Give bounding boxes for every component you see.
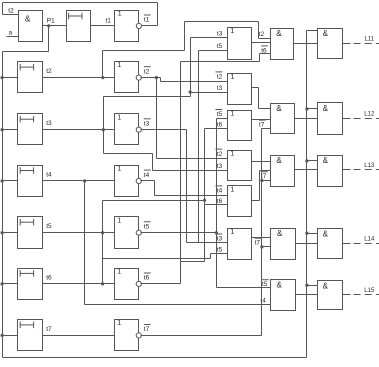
label t5-bar at gate G5 input xyxy=(262,280,269,289)
label t2-bar at box C2 input 1 xyxy=(216,149,223,158)
enable stub into gate F4 xyxy=(307,233,318,235)
label t7-bar at gate G4 input xyxy=(255,238,262,247)
wire from rail into timer T5 xyxy=(3,232,18,234)
junction on rail at timer T7 xyxy=(0,334,3,337)
inversion bubble of U3 xyxy=(136,127,141,132)
svg-text:t4: t4 xyxy=(46,171,52,178)
svg-text:t2: t2 xyxy=(259,31,265,38)
junction t6 riser/channel xyxy=(203,199,206,202)
timer T5 (pulse element), output t5 xyxy=(18,217,43,249)
svg-text:1: 1 xyxy=(118,11,122,18)
inversion bubble of U6 xyxy=(136,281,141,286)
dashed output line L13 xyxy=(351,169,379,171)
AND gate F3, output L13 xyxy=(318,156,343,187)
junction on t2-bar wire xyxy=(155,76,158,79)
svg-text:L13: L13 xyxy=(364,163,375,169)
label t6-bar at gate G1 input xyxy=(261,46,268,54)
label a at AND gate input xyxy=(9,30,13,37)
junction on rail at timer T6 xyxy=(0,282,3,285)
svg-text:t5: t5 xyxy=(144,224,150,231)
pulse symbol of timer T4 xyxy=(20,167,33,173)
wire t6-bar into gate G1 xyxy=(260,53,271,55)
label t3-bar at inverter U3 output xyxy=(144,119,151,128)
wire t3 run xyxy=(104,96,191,98)
junction on enable rail at gate F3 xyxy=(305,159,308,162)
wire from rail into timer T2 xyxy=(3,77,18,79)
label 1 of inverter U1 xyxy=(118,11,122,18)
junction on t3 wire xyxy=(102,128,105,131)
pulse symbol of timer T7 xyxy=(20,322,33,328)
wire output of gate G1 to F1 xyxy=(294,43,318,45)
output wire of gate F5 xyxy=(343,294,351,296)
dashed output line L12 xyxy=(351,118,379,120)
wire t7-bar into gate G2 xyxy=(262,128,271,130)
wire box D output into gate G3 xyxy=(260,170,271,172)
wire t3-bar into box E xyxy=(187,242,228,244)
svg-text:t6: t6 xyxy=(217,121,223,128)
wire t2 into gate G1 xyxy=(259,38,271,40)
wire t6 run xyxy=(103,200,205,202)
wire into AND gate input t2 xyxy=(3,14,19,16)
inverter U5, output t5-bar xyxy=(115,217,139,249)
svg-text:1: 1 xyxy=(117,166,121,173)
wire t7-bar column xyxy=(261,129,263,336)
label t6 at timer T6 output xyxy=(46,274,52,281)
junction on enable rail at gate F4 xyxy=(305,232,308,235)
label t5 at timer T5 output xyxy=(46,223,52,230)
inverter U4, output t4-bar xyxy=(115,166,139,197)
label t1 xyxy=(106,17,112,24)
svg-text:t7: t7 xyxy=(46,326,52,333)
wire output of gate G2 to F2 xyxy=(295,118,318,120)
svg-text:P1: P1 xyxy=(47,17,55,24)
label L15 xyxy=(364,288,375,294)
svg-text:t3: t3 xyxy=(217,30,223,37)
wire t5-bar from bubble U5 xyxy=(141,232,217,234)
junction on rail at timer T2 xyxy=(0,76,3,79)
label t5 at box A input 2 xyxy=(217,43,223,50)
label t2 at AND gate input xyxy=(8,7,14,14)
wire t2 drop to gate G1 xyxy=(258,22,260,39)
label t6 at box C input 2 xyxy=(217,121,223,128)
wire from rail into timer T3 xyxy=(3,129,18,131)
label t3 at box A input 1 xyxy=(217,30,223,37)
label t6 at box D input 2 xyxy=(217,198,223,205)
svg-text:&: & xyxy=(276,29,282,38)
wire t3 into box C2 xyxy=(153,170,228,172)
junction t5-bar at column xyxy=(215,231,218,234)
label & of AND gate F3 xyxy=(323,156,329,165)
dashed output line L14 xyxy=(351,243,379,245)
pulse symbol of timer T1 xyxy=(69,13,82,19)
wire t2-bar column down xyxy=(156,78,158,159)
svg-text:1: 1 xyxy=(117,114,121,121)
svg-text:t4: t4 xyxy=(144,172,150,179)
wire t4 descender xyxy=(84,181,86,305)
svg-text:&: & xyxy=(277,281,283,290)
inverter U6, output t6-bar xyxy=(115,269,139,300)
label 1 of box C2 xyxy=(230,151,234,158)
wire box B output drop xyxy=(258,88,260,109)
wire output of gate G5 to F5 xyxy=(296,294,318,296)
logic box E (1) xyxy=(228,229,252,260)
label L11 xyxy=(365,37,375,43)
inverter U1, output t1-bar xyxy=(115,11,139,42)
wire t1-bar top feedback run xyxy=(3,2,158,4)
label 1 of box C xyxy=(230,111,234,118)
svg-text:t2: t2 xyxy=(144,68,150,75)
wire t7-bar into gate G3 xyxy=(262,180,271,182)
timer T4 (pulse element), output t4 xyxy=(18,166,43,197)
output wire of gate F1 xyxy=(343,43,351,45)
svg-text:t5: t5 xyxy=(217,247,223,254)
svg-text:1: 1 xyxy=(117,269,121,276)
inversion bubble of U2 xyxy=(136,75,141,80)
svg-text:t7: t7 xyxy=(144,326,150,333)
wire t5 descender xyxy=(102,233,104,259)
logic box D (1) xyxy=(228,186,252,217)
svg-text:1: 1 xyxy=(230,111,234,118)
label t7-bar at gate G3 input xyxy=(261,172,268,181)
wire t1-bar left drop xyxy=(2,3,4,15)
AND gate G3 xyxy=(271,156,295,187)
pulse symbol of timer T2 xyxy=(20,64,33,70)
label t2-bar at box B input 1 xyxy=(216,72,223,81)
dashed output line L15 xyxy=(351,294,379,296)
inverter U2, output t2-bar xyxy=(115,62,139,93)
label 1 of inverter U2 xyxy=(117,62,121,69)
svg-text:t3: t3 xyxy=(217,85,223,92)
label 1 of inverter U7 xyxy=(117,320,121,327)
dashed output line L11 xyxy=(351,43,379,45)
wire t5-bar into gate G5 xyxy=(217,287,271,289)
wire t2 riser 2 xyxy=(184,22,186,51)
svg-text:1: 1 xyxy=(117,320,121,327)
wire from rail into timer T7 xyxy=(3,335,18,337)
timer T2 (pulse element), output t2 xyxy=(18,62,43,93)
label P1 xyxy=(47,17,55,24)
output wire of gate F4 xyxy=(343,243,351,245)
wire output of gate G3 to F3 xyxy=(295,169,318,171)
svg-text:t5: t5 xyxy=(217,111,223,118)
label & of AND gate G4 xyxy=(277,229,283,238)
label & of AND gate F1 xyxy=(323,29,329,38)
svg-text:t3: t3 xyxy=(217,163,223,170)
AND gate F2, output L12 xyxy=(318,103,343,135)
wire t6-bar branch run xyxy=(181,261,205,263)
junction on rail at timer T5 xyxy=(0,231,3,234)
wire t3 riser xyxy=(103,97,105,130)
wire output of box E into gate G4 xyxy=(252,237,271,239)
junction on t6 wire xyxy=(101,282,104,285)
pulse symbol of timer T6 xyxy=(20,270,33,276)
AND gate F1, output L11 xyxy=(318,29,343,59)
label L12 xyxy=(364,112,375,118)
bottom enable rail P1 xyxy=(3,357,307,359)
svg-text:t2: t2 xyxy=(46,68,52,75)
svg-text:t2: t2 xyxy=(217,151,223,158)
wire output of box B xyxy=(252,87,259,89)
junction on enable rail at gate F2 xyxy=(305,107,308,110)
wire t3 distribution riser xyxy=(190,38,192,97)
wire t5-bar column xyxy=(216,119,218,288)
wire t3 from timer T3 to inverter U3 xyxy=(43,129,115,131)
wire input a of AND gate xyxy=(7,36,19,38)
wire from rail into timer T4 xyxy=(3,180,18,182)
inversion bubble of U4 xyxy=(136,178,141,183)
label t5-bar at box C input 1 xyxy=(216,110,223,119)
label t2-bar at inverter U2 output xyxy=(144,67,151,76)
label 1 of inverter U3 xyxy=(117,114,121,121)
wire t5 into box A xyxy=(199,50,228,52)
left enable rail P1 xyxy=(2,52,4,358)
wire t4 run into gate G5 xyxy=(85,304,271,306)
svg-text:t7: t7 xyxy=(259,122,265,129)
wire t4-bar from bubble U4 xyxy=(141,180,155,182)
label & of AND gate G5 xyxy=(277,281,283,290)
label t3 at timer T3 output xyxy=(46,120,52,127)
wire t6 from timer T6 to inverter U6 xyxy=(43,283,115,285)
wire t5 riser to box A xyxy=(198,51,200,243)
svg-text:L14: L14 xyxy=(364,237,375,243)
output wire of gate F2 xyxy=(343,118,351,120)
junction t7-bar tap at gate G3 xyxy=(260,179,263,182)
label t3-bar at box E input 1 xyxy=(216,234,223,243)
wire t6 distribution riser xyxy=(204,129,206,262)
wire output of box D xyxy=(252,200,260,202)
svg-text:t6: t6 xyxy=(144,275,150,282)
svg-text:t2: t2 xyxy=(217,74,223,81)
label 1 of inverter U5 xyxy=(117,217,121,224)
svg-text:&: & xyxy=(323,104,329,113)
svg-text:1: 1 xyxy=(230,151,234,158)
wire t3 lower branch run xyxy=(104,153,153,155)
AND gate G2 xyxy=(271,104,295,134)
svg-text:t1: t1 xyxy=(144,17,150,24)
label t7-bar at gate G2 input xyxy=(259,120,266,129)
logic box A (1) xyxy=(228,28,252,60)
label L14 xyxy=(364,237,375,243)
svg-text:&: & xyxy=(276,104,282,113)
wire box B output into gate G2 xyxy=(259,108,271,110)
label & of AND gate F5 xyxy=(323,281,329,290)
wire from rail into timer T6 xyxy=(3,283,18,285)
wire t3-bar from bubble U3 xyxy=(141,129,187,131)
inverter U3, output t3-bar xyxy=(115,114,139,145)
svg-text:t5: t5 xyxy=(46,223,52,230)
svg-text:L12: L12 xyxy=(364,112,375,118)
junction t7-bar tap at gate G4 xyxy=(260,245,263,248)
label t4-bar at inverter U4 output xyxy=(144,170,151,179)
label & of AND gate xyxy=(25,14,31,23)
wire t2-bar from bubble U2 xyxy=(141,77,161,79)
junction on rail at timer T3 xyxy=(0,128,3,131)
wire t5 run xyxy=(103,258,211,260)
output wire of gate F3 xyxy=(343,169,351,171)
AND gate F5, output L15 xyxy=(318,281,343,310)
wire t1-bar from bubble U1 xyxy=(142,25,158,27)
svg-text:L15: L15 xyxy=(364,288,375,294)
junction t3 tap to box B xyxy=(189,90,192,93)
logic box C (1) xyxy=(228,111,252,141)
AND gate F4, output L14 xyxy=(318,229,343,259)
wire t7-bar from bubble U7 xyxy=(141,335,262,337)
wire t6 into box D xyxy=(205,204,228,206)
label 1 of box D xyxy=(230,186,234,193)
wire t6 riser xyxy=(102,201,104,284)
wire t3 into box A xyxy=(191,37,228,39)
wire t4 from timer T4 to inverter U4 xyxy=(43,180,115,182)
wire t3-bar descender xyxy=(186,130,188,243)
junction node P1 xyxy=(47,24,50,27)
wire t6-bar from bubble U6 xyxy=(141,283,181,285)
wire t7-bar into gate G4 xyxy=(262,246,271,248)
timer T7 (pulse element), output t7 xyxy=(18,320,43,351)
svg-text:t6: t6 xyxy=(46,274,52,281)
svg-text:t7: t7 xyxy=(255,240,261,247)
label t3 at box B input 2 xyxy=(217,85,223,92)
timer T1 (pulse element), output t1 xyxy=(67,11,91,42)
right enable riser P1 to final gates xyxy=(306,31,308,358)
enable stub into gate F1 xyxy=(307,30,318,32)
junction on t4 wire xyxy=(83,179,86,182)
svg-text:1: 1 xyxy=(230,28,234,35)
label t5-bar at inverter U5 output xyxy=(144,222,151,231)
label & of AND gate F4 xyxy=(323,229,329,238)
wire t2 run xyxy=(103,50,185,52)
enable stub into gate F3 xyxy=(307,160,318,162)
wire P1 from AND gate to timer T1 xyxy=(43,25,67,27)
AND gate G5 xyxy=(271,280,296,311)
inversion bubble of U7 xyxy=(136,333,141,338)
wire t5-bar into box C xyxy=(217,118,228,120)
enable stub into gate F5 xyxy=(307,285,318,287)
wire t2-bar jog xyxy=(160,78,162,82)
svg-text:&: & xyxy=(277,229,283,238)
svg-text:&: & xyxy=(323,281,329,290)
wire t5 jog up xyxy=(210,254,212,259)
pulse symbol of timer T5 xyxy=(20,219,33,225)
svg-text:a: a xyxy=(9,30,13,37)
label t6-bar at inverter U6 output xyxy=(144,273,151,282)
label t2 at gate G1 input xyxy=(259,31,265,38)
label 1 of inverter U6 xyxy=(117,269,121,276)
timer T6 (pulse element), output t6 xyxy=(18,269,43,300)
enable stub into gate F2 xyxy=(307,108,318,110)
label t3 at box C2 input 2 xyxy=(217,163,223,170)
svg-text:&: & xyxy=(323,29,329,38)
wire t5 from timer T5 to inverter U5 xyxy=(43,232,115,234)
svg-text:1: 1 xyxy=(117,217,121,224)
label t4-bar at box D input 1 xyxy=(216,186,223,195)
wire t6-bar riser xyxy=(180,62,182,284)
svg-text:t1: t1 xyxy=(106,17,112,24)
wire t2 from timer T2 to inverter U2 xyxy=(43,77,115,79)
junction on t5 wire xyxy=(101,231,104,234)
label t4 at gate G5 input xyxy=(260,297,266,304)
wire t2-bar into box C2 xyxy=(157,158,228,160)
wire output of box C2 into gate G3 xyxy=(252,161,271,163)
svg-text:&: & xyxy=(323,229,329,238)
junction on t2 wire xyxy=(101,76,104,79)
svg-text:t3: t3 xyxy=(217,236,223,243)
wire P1 run to left rail xyxy=(3,51,49,53)
wire box D output riser xyxy=(259,171,261,201)
svg-text:t2: t2 xyxy=(8,7,14,14)
wire t7 from timer T7 to inverter U7 xyxy=(43,335,115,337)
label t7 at timer T7 output xyxy=(46,326,52,333)
svg-text:1: 1 xyxy=(230,74,234,81)
label t4 at timer T4 output xyxy=(46,171,52,178)
svg-text:L11: L11 xyxy=(365,37,375,43)
svg-text:&: & xyxy=(25,14,31,23)
AND gate G1 xyxy=(271,29,294,60)
inversion bubble of U5 xyxy=(136,230,141,235)
logic box B (1) xyxy=(228,74,252,105)
label t1-bar at inverter U1 output xyxy=(144,15,151,24)
label & of AND gate F2 xyxy=(323,104,329,113)
logic box C2 (1) xyxy=(228,151,252,181)
wire output of gate G4 to F4 xyxy=(296,243,318,245)
wire P1 riser down xyxy=(48,26,50,52)
junction on rail at timer T4 xyxy=(0,179,3,182)
wire t2 riser xyxy=(102,51,104,78)
wire t2-bar into box B xyxy=(161,81,228,83)
inverter U7, output t7-bar xyxy=(115,320,139,351)
label & of AND gate G3 xyxy=(276,156,282,165)
label 1 of box A xyxy=(230,28,234,35)
wire t1-bar riser to top xyxy=(157,3,159,26)
svg-text:1: 1 xyxy=(230,229,234,236)
wire output of box C into gate G2 xyxy=(252,119,271,121)
pulse symbol of timer T3 xyxy=(20,116,33,122)
label t5 at box E input 2 xyxy=(217,247,223,254)
svg-text:t3: t3 xyxy=(144,121,150,128)
wire t3 lower branch drop xyxy=(103,130,105,154)
wire t3 lower branch drop 2 xyxy=(152,154,154,171)
svg-text:&: & xyxy=(323,156,329,165)
wire t2 top run xyxy=(185,21,259,23)
svg-text:t3: t3 xyxy=(46,120,52,127)
timer T3 (pulse element), output t3 xyxy=(18,114,43,145)
wire output of box A into gate G1 xyxy=(252,42,271,44)
svg-text:&: & xyxy=(276,156,282,165)
wire t4-bar jog down xyxy=(154,181,156,196)
label t2 at timer T2 output xyxy=(46,68,52,75)
label t7-bar at inverter U7 output xyxy=(144,325,151,334)
label L13 xyxy=(364,163,375,169)
wire t3 into box B xyxy=(191,92,228,94)
wire t1 from timer T1 to inverter U1 xyxy=(91,25,115,27)
junction on enable rail at gate F5 xyxy=(305,284,308,287)
wire t6 into box C xyxy=(205,128,228,130)
inversion bubble of U1 xyxy=(136,23,141,28)
label 1 of inverter U4 xyxy=(117,166,121,173)
wire t4-bar into box D xyxy=(155,195,228,197)
wire t5 into box E xyxy=(211,253,228,255)
svg-text:t4: t4 xyxy=(217,188,223,195)
label 1 of box E xyxy=(230,229,234,236)
svg-text:1: 1 xyxy=(117,62,121,69)
label & of AND gate G2 xyxy=(276,104,282,113)
wire t6-bar run xyxy=(181,61,260,63)
AND gate top-left, output P1 xyxy=(19,11,43,42)
svg-text:t5: t5 xyxy=(217,43,223,50)
svg-text:1: 1 xyxy=(230,186,234,193)
AND gate G4 xyxy=(271,229,296,260)
label 1 of box B xyxy=(230,74,234,81)
wire t6-bar jog up xyxy=(259,54,261,62)
